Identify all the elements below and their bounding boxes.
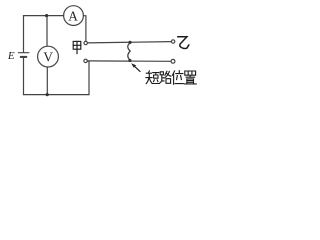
voltmeter V circle bbox=[38, 46, 59, 67]
路 bbox=[160, 72, 164, 83]
wire left vertical upper (battery + to top wire) bbox=[23, 16, 25, 53]
wire line lower (甲 to 乙) bbox=[87, 60, 171, 62]
wire ammeter to top terminal bbox=[83, 16, 86, 42]
label 短路位置 (short-circuit position) bbox=[146, 71, 196, 85]
terminal 甲 top bbox=[84, 41, 87, 44]
置 bbox=[184, 71, 196, 84]
svg-text:V: V bbox=[43, 50, 53, 65]
arrow to short-circuit position bbox=[131, 63, 140, 72]
wire right loop vertical (bottom wire up to lower terminal) bbox=[87, 61, 89, 95]
svg-text:E: E bbox=[7, 50, 15, 62]
battery E long plate bbox=[18, 52, 28, 54]
wire left vertical lower (battery - down) bbox=[23, 57, 25, 94]
位 bbox=[172, 71, 183, 85]
wire line upper (甲 to 乙) bbox=[88, 42, 172, 43]
short-circuit squiggle wire bbox=[128, 43, 130, 60]
node junction top wire / voltmeter bbox=[45, 14, 48, 17]
wire voltmeter branch upper bbox=[46, 16, 48, 47]
短 bbox=[146, 71, 152, 84]
node junction bottom wire / voltmeter bbox=[46, 93, 49, 96]
terminal 甲 bottom bbox=[84, 59, 87, 62]
label 乙 (terminal name) bbox=[178, 37, 189, 49]
ammeter A circle bbox=[64, 6, 84, 26]
battery E short plate bbox=[21, 56, 27, 58]
wire voltmeter branch lower bbox=[46, 67, 48, 95]
svg-text:A: A bbox=[68, 8, 78, 23]
node squiggle bottom dot bbox=[128, 59, 131, 62]
terminal 乙 bottom bbox=[171, 59, 175, 63]
wire bottom (battery to right loop) bbox=[24, 94, 90, 96]
node squiggle top dot bbox=[128, 41, 131, 44]
label 甲 (terminal name) bbox=[73, 41, 81, 53]
terminal 乙 top bbox=[171, 40, 174, 43]
wire top (battery to ammeter) bbox=[24, 15, 64, 17]
